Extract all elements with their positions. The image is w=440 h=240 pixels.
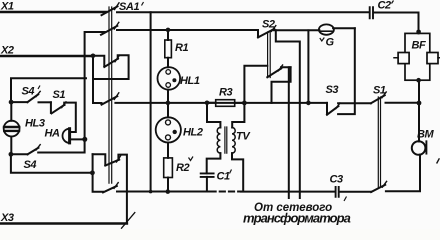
switch S1 lower blade xyxy=(371,185,385,192)
svg-text:X1: X1 xyxy=(0,1,14,13)
svg-text:S2: S2 xyxy=(262,19,275,31)
node X1 terminal line xyxy=(0,11,106,14)
wire HL2 top lead xyxy=(167,103,169,117)
svg-text:S1: S1 xyxy=(373,85,386,97)
switch S1 left pole stub xyxy=(50,102,52,113)
switch S1 left blade xyxy=(52,105,65,114)
wire S3 upper contact xyxy=(338,102,371,104)
wire lower bus right to BM xyxy=(386,155,420,192)
wire G to riser xyxy=(333,27,355,29)
wire V3 from G line down to HL bus xyxy=(307,30,309,103)
svg-text:S3: S3 xyxy=(326,84,339,96)
lamp HL3 leads xyxy=(10,102,12,154)
tick after C2 xyxy=(392,1,394,4)
switch S4 lower pole xyxy=(11,153,28,155)
svg-text:S1: S1 xyxy=(53,89,66,101)
svg-text:C2: C2 xyxy=(378,0,392,12)
svg-text:HL2: HL2 xyxy=(183,127,203,139)
svg-text:C1: C1 xyxy=(217,171,231,183)
wire TV primary left lead xyxy=(207,103,220,128)
switch S4 upper blade xyxy=(27,94,38,102)
transformer TV core xyxy=(225,127,227,153)
wire S3 lower contact to G riser xyxy=(338,28,355,114)
tick below C3 xyxy=(344,197,347,202)
resistor R1 xyxy=(165,40,172,58)
tick before G xyxy=(320,38,325,42)
switch SA1 section 5 (row A) pole xyxy=(93,154,106,165)
tick near BM xyxy=(437,158,440,163)
switch SA1 section 6 blade (lower bus) xyxy=(103,186,117,192)
tick after SA1 xyxy=(142,2,144,6)
headphone BF frame xyxy=(405,33,430,80)
wire TV secondary left lead to C1 xyxy=(207,153,221,173)
svg-text:R1: R1 xyxy=(175,42,189,54)
lamp HL3 xyxy=(4,121,20,137)
node X2 terminal line xyxy=(0,55,93,58)
wire C2 to BF corner xyxy=(374,13,419,34)
svg-text:BF: BF xyxy=(412,40,427,52)
transformer TV left winding xyxy=(217,128,220,154)
headphone BF right capsule xyxy=(427,53,438,64)
corner tick at X3 riser xyxy=(122,213,135,229)
switch S3 pole stub xyxy=(326,103,328,115)
svg-text:BM: BM xyxy=(417,129,435,141)
lamp HL1 xyxy=(158,67,181,90)
wire TV primary right lead xyxy=(232,103,244,128)
capacitor C1 bottom lead xyxy=(206,177,208,192)
tick over R2 xyxy=(189,157,194,161)
wire lower bus dashed segment xyxy=(211,191,242,193)
wire lower-left vertical to lower bus pole xyxy=(93,154,103,192)
switch S2 blade 2 xyxy=(267,68,281,77)
node X3 terminal line xyxy=(0,222,127,225)
svg-text:C3: C3 xyxy=(330,174,344,186)
wire vertical from X1 line down to lower bus xyxy=(150,12,152,191)
headphone BF stubs xyxy=(394,57,440,59)
resistor R2 leads xyxy=(167,143,169,192)
wire S2 contact to G xyxy=(274,29,319,31)
switch S4 lower blade xyxy=(28,148,39,155)
switch S1 linkage xyxy=(378,97,380,187)
tick after C1 xyxy=(230,170,232,174)
switch SA1 section 2 blade xyxy=(101,26,117,35)
svg-text:X3: X3 xyxy=(0,212,14,224)
wire BM top to S1 node and BF xyxy=(418,80,420,141)
switch SA1 section 5 blade xyxy=(105,160,119,166)
svg-text:S4: S4 xyxy=(24,159,37,171)
svg-text:HL3: HL3 xyxy=(25,118,45,130)
resistor R3 leads xyxy=(207,102,244,104)
wire lower bus solid left xyxy=(117,191,209,193)
wire S2 row2 loopback to bus xyxy=(272,67,291,103)
wire X2 pole stub xyxy=(93,56,104,66)
headphone BF left capsule xyxy=(398,53,409,64)
wire S2 row2 pole from R3 node xyxy=(244,66,267,103)
wire vertical B from X2 node down to HL bus xyxy=(93,56,102,103)
svg-text:SA1: SA1 xyxy=(119,1,139,13)
switch SA1 linkage (dashed mechanical bar) xyxy=(109,7,112,183)
wire row2 contact to R1 node and S2 pole xyxy=(117,29,258,31)
wire left box top rail xyxy=(11,78,86,102)
switch S2 blade 1 xyxy=(258,29,274,38)
switch S3 blade xyxy=(327,106,338,115)
resistor R3 xyxy=(216,100,235,107)
wire C3 to S1 lower xyxy=(341,191,372,193)
wire S1 contact to BM node xyxy=(386,102,420,104)
svg-text:TV: TV xyxy=(236,131,251,143)
wire X1 line to C2 xyxy=(117,11,369,13)
svg-text:X2: X2 xyxy=(0,45,14,57)
switch SA1 section 3 blade xyxy=(104,59,118,67)
switch S2 linkage xyxy=(268,32,271,78)
svg-text:G: G xyxy=(326,37,335,49)
wire X2 contact loop around linkage xyxy=(93,55,129,79)
microphone BM xyxy=(412,141,426,155)
switch SA1 section 4 blade xyxy=(102,96,118,104)
wire S2 row2 contact xyxy=(281,67,291,68)
wire HA output to vertical A xyxy=(70,138,84,140)
wire HL bus xyxy=(115,102,327,104)
wire left box bottom rail xyxy=(11,154,93,173)
lamp HL2 xyxy=(156,117,181,142)
svg-text:HL1: HL1 xyxy=(180,75,200,87)
wire lower bus to C3 xyxy=(241,191,334,193)
resistor R2 xyxy=(164,158,173,178)
switch S4 upper pole xyxy=(11,101,27,103)
wire transformer lead T1 xyxy=(288,67,290,198)
wire TV secondary right lead to bus xyxy=(232,153,243,191)
svg-text:R3: R3 xyxy=(219,87,233,99)
transformer TV right winding xyxy=(232,128,235,154)
junction dots xyxy=(166,28,171,33)
resistor R1 leads xyxy=(167,30,169,67)
switch SA1 section 1 blade xyxy=(102,6,118,15)
wire row2: vertical A down from corner + pole stub xyxy=(38,32,104,153)
capacitor C2 xyxy=(370,7,373,18)
wire H2 stub to transformer lead T2 xyxy=(276,30,300,198)
wire S4 to S1 xyxy=(39,101,51,103)
lamp G xyxy=(319,24,334,34)
wire row A contact to X3 riser xyxy=(118,155,127,224)
svg-text:R2: R2 xyxy=(176,162,190,174)
wire HL1 to bus xyxy=(167,90,169,103)
switch S2 pole stub xyxy=(257,30,259,37)
capacitor C1 xyxy=(201,173,214,177)
capacitor C3 xyxy=(336,187,339,197)
svg-text:S4: S4 xyxy=(22,86,35,98)
tick after S4 upper xyxy=(38,86,40,90)
svg-text:трансформатора: трансформатора xyxy=(243,210,351,225)
wire S1 contact down to HA xyxy=(64,103,76,132)
sounder HA symbol xyxy=(63,129,70,143)
switch S1 upper blade xyxy=(371,95,385,103)
svg-text:HA: HA xyxy=(45,128,61,140)
